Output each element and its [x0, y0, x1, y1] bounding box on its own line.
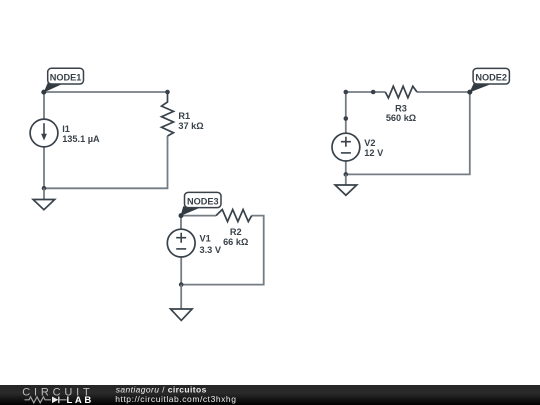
voltage source V2: [332, 133, 360, 161]
svg-text:http://circuitlab.com/ct3hxhg: http://circuitlab.com/ct3hxhg: [115, 394, 236, 404]
resistor R2: [216, 210, 252, 222]
label V1 value: [200, 233, 222, 255]
node A junction dot at R1 top: [165, 90, 170, 95]
node B junction dot at ground: [42, 186, 47, 191]
wire top left segment: [346, 91, 373, 93]
wire R3 left lead: [373, 91, 385, 93]
svg-text:LAB: LAB: [67, 395, 94, 405]
node G junction dot at ground: [179, 282, 184, 287]
current source I1: [30, 119, 58, 147]
node NODE1 junction dot: [41, 90, 46, 95]
label R3 value: [386, 103, 416, 123]
wire V1 bottom to ground junction: [180, 257, 182, 285]
svg-text:R1: R1: [178, 111, 190, 121]
label I1 value: [62, 124, 100, 144]
node D junction dot at R3 left: [371, 90, 376, 95]
svg-text:V2: V2: [364, 138, 375, 148]
voltage source V1: [167, 229, 195, 257]
wire left vertical (node3 to V1 top): [180, 216, 182, 230]
svg-text:3.3 V: 3.3 V: [200, 245, 222, 255]
wire R1 bottom / right vertical and bottom run: [44, 136, 168, 188]
ground (circuit 3): [171, 285, 193, 321]
wire R3 right lead to node2: [417, 91, 470, 93]
node NODE2 junction dot: [467, 90, 472, 95]
node NODE2 label: [470, 68, 510, 92]
wire top (node3 to R2): [181, 215, 216, 217]
svg-text:66 kΩ: 66 kΩ: [223, 237, 248, 247]
node F junction dot at ground: [344, 172, 349, 177]
svg-text:560 kΩ: 560 kΩ: [386, 113, 416, 123]
svg-text:12 V: 12 V: [364, 148, 384, 158]
wire I1 bottom to ground junction: [43, 147, 45, 188]
wire R2 right lead, right vertical and bottom run: [181, 216, 264, 285]
node E junction dot above V2: [344, 116, 349, 121]
wire right vertical and bottom run: [346, 92, 470, 174]
svg-text:37 kΩ: 37 kΩ: [178, 121, 203, 131]
wire left vertical (corner to V2 top): [345, 92, 347, 133]
ground (circuit 2): [335, 174, 357, 195]
ground (circuit 1): [33, 188, 55, 209]
node C junction dot top-left corner: [344, 90, 349, 95]
resistor R1: [162, 92, 174, 136]
svg-text:R2: R2: [230, 227, 242, 237]
footer credit text: [115, 384, 236, 403]
label V2 value: [364, 138, 384, 158]
svg-text:135.1 µA: 135.1 µA: [62, 134, 100, 144]
label R1 value: [178, 111, 203, 131]
svg-text:NODE2: NODE2: [475, 72, 507, 82]
wire V2 bottom to ground junction: [345, 161, 347, 174]
svg-text:R3: R3: [395, 103, 407, 113]
svg-text:I1: I1: [62, 124, 70, 134]
node NODE1 label: [44, 68, 84, 92]
node NODE3 label: [181, 192, 221, 216]
CircuitLab logo wordmark: [22, 386, 94, 405]
resistor R3: [385, 86, 417, 98]
wire left vertical (node1 down to I1 top): [43, 92, 45, 119]
svg-text:V1: V1: [200, 233, 211, 243]
wire top (node1 to R1 top): [44, 91, 168, 93]
label R2 value: [223, 227, 248, 247]
svg-text:NODE1: NODE1: [50, 72, 82, 82]
svg-text:NODE3: NODE3: [187, 196, 219, 206]
node NODE3 junction dot: [179, 213, 184, 218]
